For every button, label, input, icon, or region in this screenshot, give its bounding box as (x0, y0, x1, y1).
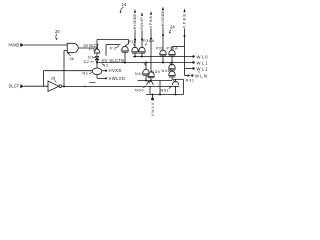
svg-text:24: 24 (170, 24, 175, 29)
svg-text:WL0: WL0 (197, 54, 209, 59)
svg-text:N41: N41 (162, 69, 170, 73)
svg-text:D2: D2 (84, 60, 90, 64)
svg-text:HVVDDB: HVVDDB (133, 13, 137, 29)
svg-text:N40: N40 (135, 72, 144, 76)
svg-text:20: 20 (55, 29, 60, 34)
svg-text:D1: D1 (88, 56, 94, 60)
svg-text:SLCT: SLCT (9, 84, 20, 89)
svg-text:HVXD: HVXD (109, 68, 122, 73)
svg-text:VWLXP: VWLXP (140, 16, 144, 30)
svg-text:HV SLCTB: HV SLCTB (102, 58, 125, 63)
svg-text:N51: N51 (161, 88, 169, 92)
svg-text:N1: N1 (83, 72, 89, 76)
svg-text:P30: P30 (129, 40, 137, 44)
svg-text:P30A: P30A (143, 39, 154, 43)
svg-text:P31A: P31A (167, 46, 178, 50)
svg-text:P2: P2 (110, 47, 116, 51)
svg-text:WL2: WL2 (197, 66, 209, 71)
svg-text:VWLX: VWLX (151, 102, 155, 116)
svg-text:N2: N2 (103, 64, 109, 68)
svg-text:14: 14 (122, 2, 127, 7)
svg-text:N50: N50 (135, 89, 144, 93)
svg-text:26: 26 (70, 57, 74, 61)
svg-text:N30: N30 (151, 70, 160, 74)
svg-text:P31: P31 (156, 46, 163, 50)
svg-text:28: 28 (51, 77, 55, 81)
svg-text:P1: P1 (89, 48, 95, 52)
svg-text:WLN: WLN (195, 73, 207, 78)
svg-text:HVXB: HVXB (9, 43, 20, 48)
svg-text:WL1: WL1 (197, 60, 209, 65)
svg-text:XPBB: XPBB (183, 13, 187, 28)
svg-text:N31: N31 (186, 78, 195, 82)
svg-text:XPBB: XPBB (149, 15, 153, 28)
svg-text:HVVDDB: HVVDDB (161, 10, 165, 26)
svg-text:VWLXD: VWLXD (109, 76, 126, 81)
